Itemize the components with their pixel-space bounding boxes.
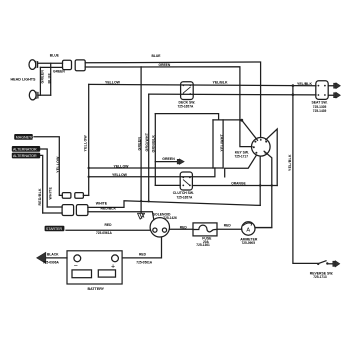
svg-text:ORANGE: ORANGE bbox=[231, 182, 246, 186]
svg-text:725-1439: 725-1439 bbox=[313, 109, 327, 113]
svg-text:RED/BLK: RED/BLK bbox=[38, 188, 42, 206]
svg-text:RED: RED bbox=[180, 225, 188, 229]
svg-text:725-1361: 725-1361 bbox=[196, 243, 210, 247]
svg-text:GREEN: GREEN bbox=[40, 70, 44, 84]
svg-text:−: − bbox=[74, 263, 78, 270]
svg-text:GREEN: GREEN bbox=[162, 157, 175, 161]
svg-text:725-1657A: 725-1657A bbox=[178, 105, 194, 109]
svg-text:YEL/BLK: YEL/BLK bbox=[297, 82, 312, 86]
svg-text:RED: RED bbox=[105, 223, 113, 227]
svg-text:ALTERNATOR: ALTERNATOR bbox=[13, 148, 37, 152]
svg-text:BATTERY: BATTERY bbox=[88, 287, 105, 291]
svg-text:BLUE: BLUE bbox=[47, 73, 51, 84]
svg-text:725-0561A: 725-0561A bbox=[96, 231, 112, 235]
svg-text:GREEN: GREEN bbox=[137, 137, 141, 151]
svg-text:ORN/BLK: ORN/BLK bbox=[152, 135, 156, 153]
svg-text:GREEN: GREEN bbox=[53, 70, 65, 74]
svg-text:RED: RED bbox=[224, 224, 232, 228]
svg-text:WHITE: WHITE bbox=[96, 202, 108, 206]
svg-text:HEAD LIGHTS: HEAD LIGHTS bbox=[11, 78, 37, 82]
svg-text:YEL/WHT: YEL/WHT bbox=[220, 133, 224, 151]
svg-text:YEL/BLK: YEL/BLK bbox=[288, 154, 292, 171]
svg-text:YELLOW: YELLOW bbox=[112, 173, 128, 177]
svg-text:RED/BLK: RED/BLK bbox=[101, 207, 117, 211]
svg-text:725-1717: 725-1717 bbox=[235, 155, 249, 159]
svg-text:+: + bbox=[111, 263, 115, 270]
svg-text:A: A bbox=[246, 227, 250, 233]
svg-text:ALTERNATOR: ALTERNATOR bbox=[13, 154, 37, 158]
svg-text:YELLOW: YELLOW bbox=[114, 164, 130, 168]
svg-text:MAGNETO: MAGNETO bbox=[16, 135, 34, 139]
svg-text:YELLOW: YELLOW bbox=[83, 135, 87, 152]
svg-text:725-0996A: 725-0996A bbox=[43, 261, 59, 265]
svg-text:YELLOW: YELLOW bbox=[105, 80, 121, 84]
svg-text:STARTER: STARTER bbox=[46, 227, 62, 231]
svg-text:WHITE: WHITE bbox=[49, 187, 53, 200]
svg-text:YELLOW: YELLOW bbox=[56, 156, 60, 173]
svg-text:RED: RED bbox=[139, 252, 147, 256]
svg-text:YEL/BLK: YEL/BLK bbox=[213, 80, 228, 84]
svg-text:725-0561A: 725-0561A bbox=[136, 261, 152, 265]
svg-text:725-0905: 725-0905 bbox=[242, 241, 256, 245]
svg-text:BLUE: BLUE bbox=[50, 54, 60, 58]
svg-text:ORG/WHT: ORG/WHT bbox=[145, 132, 149, 151]
svg-text:725-1426: 725-1426 bbox=[163, 216, 177, 220]
svg-text:BLACK: BLACK bbox=[47, 252, 59, 256]
svg-text:725-1657A: 725-1657A bbox=[177, 195, 193, 199]
svg-text:725-1713: 725-1713 bbox=[313, 275, 327, 279]
svg-text:BLUE: BLUE bbox=[152, 54, 162, 58]
svg-text:GREEN: GREEN bbox=[159, 63, 171, 67]
